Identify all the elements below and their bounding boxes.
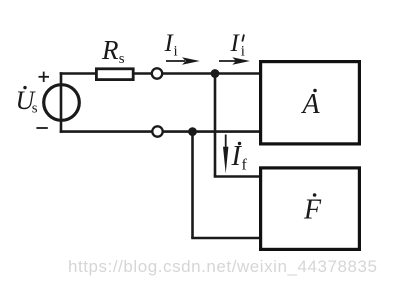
svg-text:i: i <box>241 44 245 60</box>
svg-text:https://blog.csdn.net/weixin_4: https://blog.csdn.net/weixin_44378835 <box>68 257 378 276</box>
svg-text:I: I <box>230 30 241 57</box>
svg-text:s: s <box>32 101 38 117</box>
svg-text:A: A <box>301 89 321 120</box>
svg-text:R: R <box>101 35 119 65</box>
svg-text:i: i <box>174 44 178 60</box>
svg-text:f: f <box>242 157 248 174</box>
svg-text:F: F <box>303 195 322 226</box>
svg-text:s: s <box>119 51 125 67</box>
